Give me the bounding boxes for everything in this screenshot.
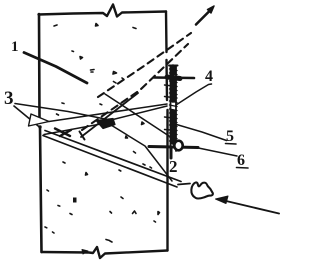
short leader into wing nut [178,184,190,185]
wing nut [191,182,213,198]
leader line 3a (to drill-hole tip) [15,104,110,121]
tip junction blob [96,119,115,129]
nut at bottom crossbar [174,141,182,151]
pointer arrow head [216,196,229,204]
svg-text:1: 1 [11,39,19,55]
top crossbar junction blob [167,77,180,79]
svg-text:4: 4 [205,68,213,85]
leader line to label 4 [176,84,212,105]
leader line to label 5 [177,125,227,141]
concrete section top edge with break [39,5,167,17]
svg-text:5: 5 [226,128,234,145]
small mark on bottom edge [82,250,88,255]
leader line to label 6 [196,148,237,157]
drill axis dashed row 2 [82,44,188,130]
label 5 underline [226,143,237,146]
concrete section right edge [166,12,168,251]
top crossbar (upper plate) [154,76,194,79]
svg-text:2: 2 [169,157,178,176]
drill hole end cap [80,132,85,140]
texture speckles [45,24,160,243]
fan line F2 tip blob to threaded rod [111,106,167,120]
leader line 3b (short, to wedge) [14,106,40,128]
threaded rod top cap [169,65,178,67]
drill hole lower edge (solid) [81,93,138,137]
knot at left edge crossing [38,125,41,128]
drill axis dashed row 1 [98,33,191,97]
junction scribble at wedge apex [55,129,71,137]
concrete section left edge [39,14,42,252]
leader line to label 1 [24,53,87,84]
tie bar bottom edge [43,136,177,188]
direction arrow shaft [196,11,210,25]
wedge anchor (white triangle) [29,114,50,126]
line from drill-hole end down to rod bottom [105,94,169,136]
tie bar top edge [45,131,181,182]
label 6 underline [237,167,249,170]
direction arrow head [208,6,215,13]
threaded rod dark thread blobs [170,67,176,142]
line E1 from tip blob to wing nut [111,125,172,181]
threaded rod left line [170,66,172,152]
bottom crossbar (bearing plate) [149,147,198,148]
threaded rod right line [175,66,177,152]
rod stub below bearing plate [170,148,173,158]
svg-text:6: 6 [237,152,245,169]
concrete section bottom edge with break [42,247,168,258]
threaded rod hatching [165,69,178,142]
fan line F1 wedge to threaded rod top [49,104,167,122]
svg-text:3: 3 [4,88,14,109]
fan line mid (wedge bottom to tip blob) [44,123,106,135]
pointer arrow shaft (bottom right) [224,201,279,214]
